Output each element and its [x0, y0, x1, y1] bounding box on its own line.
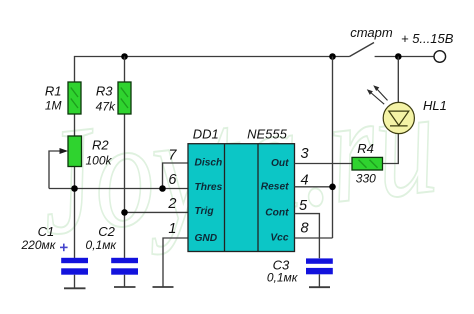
wire R2 wiper — [49, 151, 66, 189]
resistor R4 — [352, 157, 383, 170]
wire C2 bottom — [124, 275, 126, 287]
wire thres run — [49, 188, 188, 190]
svg-text:Trig: Trig — [195, 206, 215, 217]
svg-text:0,1мк: 0,1мк — [86, 238, 118, 252]
svg-text:6: 6 — [168, 172, 177, 188]
svg-text:старт: старт — [350, 25, 393, 40]
svg-text:2: 2 — [167, 196, 176, 212]
wire R3 leads — [124, 57, 126, 83]
svg-text:8: 8 — [301, 221, 309, 237]
svg-text:Cont: Cont — [265, 208, 289, 219]
svg-text:R4: R4 — [357, 141, 374, 156]
svg-text:220мк: 220мк — [20, 238, 56, 252]
svg-text:C2: C2 — [98, 224, 115, 239]
wire top rail right segment — [375, 56, 434, 58]
ground C2 — [114, 286, 136, 288]
resistor R3 — [118, 82, 131, 114]
switch blade — [350, 43, 375, 57]
svg-text:Thres: Thres — [195, 182, 223, 193]
svg-text:Vcc: Vcc — [270, 233, 288, 244]
resistor R1 — [68, 82, 81, 114]
label plus C1 — [60, 244, 68, 252]
node disch/thres junction — [159, 185, 166, 192]
svg-text:1: 1 — [168, 221, 176, 237]
svg-text:+ 5...15В: + 5...15В — [401, 31, 454, 46]
wire LED top lead — [397, 57, 399, 103]
ground C1 — [64, 287, 86, 289]
svg-text:7: 7 — [168, 148, 177, 164]
svg-text:100k: 100k — [86, 153, 113, 167]
svg-text:3: 3 — [301, 146, 309, 162]
ground pin1 — [153, 286, 174, 288]
wire pin7 disch — [163, 163, 189, 189]
potentiometer R2 — [68, 136, 82, 167]
wire R1 to R2 — [74, 114, 76, 136]
svg-text:Out: Out — [271, 158, 289, 169]
svg-text:R1: R1 — [45, 84, 62, 99]
svg-text:1M: 1M — [45, 99, 62, 113]
wire C3 bottom — [318, 274, 320, 287]
svg-text:C1: C1 — [38, 224, 55, 239]
svg-text:330: 330 — [356, 172, 376, 186]
wiper arrowhead — [60, 148, 69, 154]
wire top rail — [75, 57, 350, 83]
wire pin8 vcc — [295, 237, 333, 239]
svg-text:5: 5 — [299, 198, 308, 214]
wire pin2 trig — [125, 211, 189, 213]
wire vcc vertical — [332, 57, 334, 239]
wire R2 bottom to C1 — [74, 167, 76, 259]
node thres/C1 junction — [71, 185, 78, 192]
svg-text:DD1: DD1 — [193, 127, 219, 142]
wire C1 bottom — [74, 275, 76, 289]
svg-text:R3: R3 — [96, 84, 113, 99]
LED HL1 — [367, 85, 415, 133]
svg-text:GND: GND — [195, 233, 218, 244]
node LED branch junction — [395, 53, 402, 60]
svg-text:HL1: HL1 — [423, 98, 447, 113]
svg-text:Reset: Reset — [261, 182, 289, 193]
capacitor C3 — [306, 258, 333, 274]
wire pin3 out to R4 — [295, 163, 353, 165]
svg-text:0,1мк: 0,1мк — [267, 270, 299, 284]
capacitor C2 — [111, 258, 138, 275]
ground C3 — [309, 286, 330, 288]
node reset junction — [329, 184, 336, 191]
svg-text:R2: R2 — [92, 137, 109, 152]
wire R3 bottom to C2 — [124, 114, 126, 258]
svg-text:47k: 47k — [96, 99, 116, 113]
wire R4 to LED — [383, 134, 399, 164]
IC DD1 NE555 — [188, 144, 295, 252]
wire pin4 reset — [295, 186, 333, 188]
node Vcc branch junction — [329, 53, 336, 60]
svg-text:NE555: NE555 — [247, 127, 288, 142]
terminal circle — [434, 51, 446, 63]
wire pin1 gnd — [163, 238, 188, 287]
watermark Joyta.ru — [31, 56, 444, 267]
svg-text:4: 4 — [301, 172, 309, 188]
node trig junction — [121, 209, 128, 216]
svg-text:Disch: Disch — [195, 158, 223, 169]
capacitor C1 — [61, 258, 88, 275]
wire pin5 cont to C3 — [295, 214, 320, 259]
node R3 top junction — [121, 53, 128, 60]
